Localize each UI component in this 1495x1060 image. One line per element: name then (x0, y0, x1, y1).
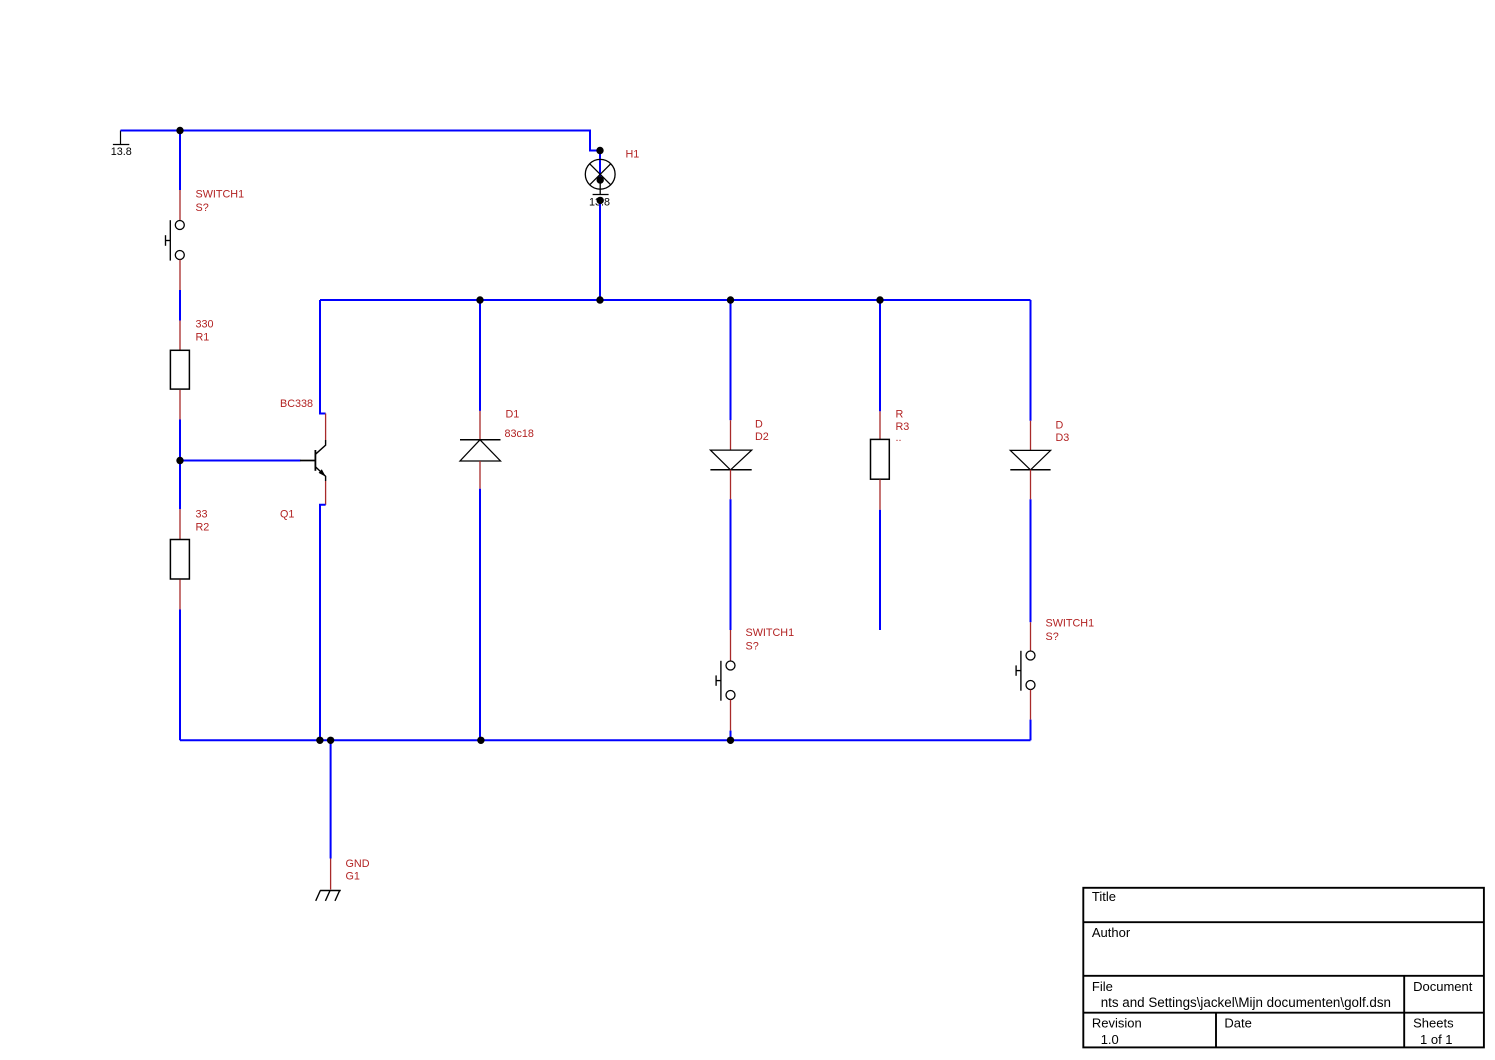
svg-text:R2: R2 (196, 522, 210, 534)
svg-text:Author: Author (1092, 925, 1131, 940)
wire D3 riser from bus (blue) (1030, 300, 1032, 421)
wire top bus (320, 299, 1031, 301)
wire S1 to R1 (blue) (179, 290, 181, 321)
junction dot lamp bottom (597, 197, 604, 204)
wire bottom rail (180, 739, 1031, 741)
wire top rail (121, 131, 601, 151)
svg-text:SWITCH1: SWITCH1 (746, 627, 795, 639)
wire D3 to S3 (blue) (1030, 499, 1032, 622)
junction dot S2 rail (727, 737, 734, 744)
svg-text:H1: H1 (626, 149, 640, 161)
wire S1 top (blue) (179, 131, 181, 191)
svg-text:Revision: Revision (1092, 1016, 1142, 1031)
svg-text:S?: S? (196, 202, 209, 214)
junction dot D1 top (476, 296, 483, 303)
ground G1 (316, 859, 341, 901)
svg-text:S?: S? (1046, 631, 1059, 643)
svg-text:D: D (755, 419, 763, 431)
junction dot base node (176, 457, 183, 464)
wire S2 to bottom rail (blue) (730, 731, 732, 741)
svg-text:D: D (1056, 420, 1064, 432)
svg-text:Sheets: Sheets (1413, 1016, 1454, 1031)
svg-text:330: 330 (196, 319, 214, 331)
svg-text:1 of 1: 1 of 1 (1420, 1032, 1453, 1047)
resistor R2 33 (170, 509, 189, 610)
wire Q1 emitter to bottom rail (blue) (320, 505, 326, 741)
diode D2 (710, 420, 751, 499)
svg-text:SWITCH1: SWITCH1 (196, 189, 245, 201)
svg-text:D2: D2 (755, 431, 769, 443)
svg-text:Date: Date (1224, 1016, 1251, 1031)
wire D2 top (blue) (730, 300, 732, 420)
title block (1083, 888, 1484, 1048)
svg-text:GND: GND (346, 858, 370, 870)
wire S3 to bottom rail (blue) (1030, 720, 1032, 741)
svg-text:D3: D3 (1056, 432, 1070, 444)
svg-text:R: R (896, 409, 904, 421)
wire lamp to bus (blue) (599, 201, 601, 300)
junction dot top-left branch (176, 127, 183, 134)
svg-text:13.8: 13.8 (111, 146, 132, 158)
svg-text:Document: Document (1413, 979, 1473, 994)
svg-text:S?: S? (746, 640, 759, 652)
svg-text:BC338: BC338 (280, 398, 313, 410)
wire R1 to base node (blue) (179, 420, 181, 510)
wire D1 to bottom rail (blue) (479, 489, 481, 741)
junction dot emitter rail (316, 737, 323, 744)
svg-text:Q1: Q1 (280, 509, 294, 521)
junction dot D2 top (727, 296, 734, 303)
resistor R3 (871, 411, 890, 510)
wire D2 to S2 (blue) (730, 499, 732, 630)
switch S3 SWITCH1 (1016, 622, 1035, 719)
junction dot gnd rail (327, 737, 334, 744)
svg-text:Title: Title (1092, 889, 1116, 904)
switch S1 SWITCH1 (166, 190, 185, 290)
junction dot R3 top (876, 296, 883, 303)
svg-text:1.0: 1.0 (1101, 1032, 1119, 1047)
diode D3 (1010, 421, 1050, 500)
svg-text:..: .. (896, 432, 902, 444)
svg-text:G1: G1 (346, 871, 360, 883)
switch S2 SWITCH1 (716, 630, 735, 731)
wire D1 top (blue) (479, 300, 481, 411)
lamp H1 (585, 151, 615, 195)
svg-text:33: 33 (196, 509, 208, 521)
svg-text:83c18: 83c18 (505, 428, 534, 440)
diode D1 83c18 (460, 411, 501, 489)
wire R3 bottom dangling (blue) (879, 510, 881, 630)
transistor Q1 BC338 (300, 414, 326, 505)
svg-text:D1: D1 (506, 409, 520, 421)
wire R2 to bottom rail (blue) (179, 610, 181, 741)
svg-text:nts and Settings\jackel\Mijn d: nts and Settings\jackel\Mijn documenten\… (1101, 995, 1391, 1010)
junction dot D1 rail (477, 737, 484, 744)
wire Q1 collector riser (blue) (320, 300, 326, 414)
wire R3 top (blue) (879, 300, 881, 411)
resistor R1 330 (170, 321, 189, 420)
junction dot lamp bus (596, 296, 603, 303)
svg-text:SWITCH1: SWITCH1 (1046, 617, 1095, 629)
power symbol 13.8 top-left (113, 131, 129, 145)
svg-text:R1: R1 (196, 332, 210, 344)
wire gnd drop (blue) (330, 740, 332, 858)
junction dot lamp top (596, 147, 603, 154)
wire base node to Q1 (blue) (180, 460, 301, 462)
svg-text:File: File (1092, 979, 1113, 994)
